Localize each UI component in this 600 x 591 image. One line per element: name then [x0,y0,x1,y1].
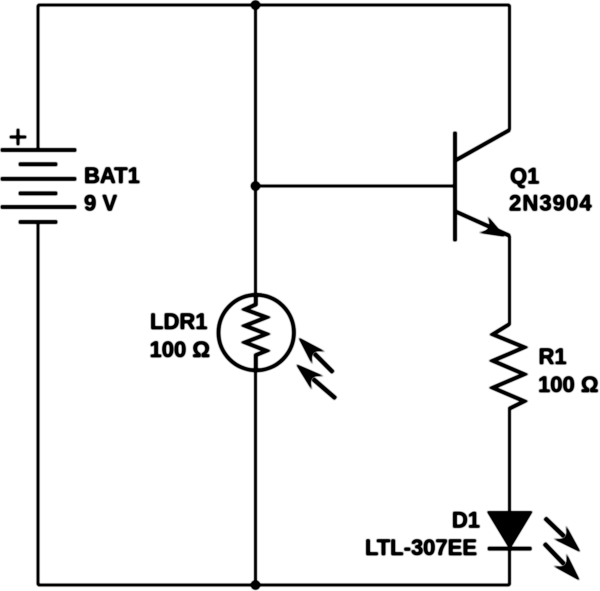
svg-text:Q1: Q1 [510,164,539,189]
LED D1 light arrow upper [545,518,580,552]
wire battery positive lead [37,5,39,150]
wire emitter lead (Q1 to R1) [509,236,511,325]
transistor Q1 emitter arrowhead [479,217,504,237]
photoresistor LDR1 zigzag element [245,296,267,370]
battery plus sign [10,129,26,145]
svg-text:100 Ω: 100 Ω [538,372,598,397]
wire base (node to Q1 base) [256,185,456,187]
photoresistor LDR1 body circle [219,295,294,370]
wire collector lead (top rail to Q1) [509,5,511,130]
svg-text:R1: R1 [539,344,567,369]
photoresistor LDR1 light arrow upper [299,338,333,372]
wire R1 to D1 [509,408,511,514]
svg-text:9 V: 9 V [84,191,117,216]
svg-text:D1: D1 [452,508,480,533]
wire center vertical (LDR1 to bottom rail) [255,370,257,585]
LED D1 anode triangle [489,513,531,547]
junction node base (LDR to Q1 base tap) [251,182,260,191]
wire bottom rail [38,584,510,586]
LED D1 cathode bar [488,547,531,550]
photoresistor LDR1 light arrow lower [297,365,336,399]
wire D1 to bottom rail [509,549,511,585]
svg-text:BAT1: BAT1 [84,163,140,188]
svg-text:LDR1: LDR1 [150,309,207,334]
resistor R1 [493,324,525,408]
wire center vertical (top rail to LDR1) [255,5,257,295]
wire top rail (battery + to collector) [38,4,510,6]
junction node bottom (LDR branch tap) [251,581,260,590]
LED D1 light arrow lower [544,544,579,580]
junction node top (LDR branch tap) [251,1,260,10]
transistor Q1 collector stroke [455,130,510,161]
transistor Q1 base bar [454,132,457,241]
svg-text:100 Ω: 100 Ω [150,337,210,362]
svg-text:2N3904: 2N3904 [509,191,593,216]
wire battery negative lead [37,222,39,585]
svg-text:LTL-307EE: LTL-307EE [365,535,477,560]
battery BAT1 [1,150,76,222]
transistor Q1 emitter stroke [455,211,510,235]
